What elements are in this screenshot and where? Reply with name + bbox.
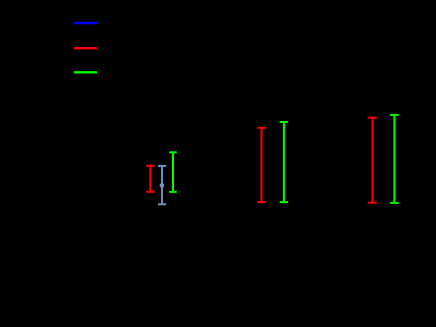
errorbar lightblue group1 with marker <box>158 166 166 204</box>
legend line red <box>74 47 97 49</box>
errorbar red group3 <box>368 118 377 203</box>
legend line green <box>74 71 97 73</box>
errorbar green group1 <box>169 152 177 192</box>
errorbar red group2 <box>257 128 266 202</box>
legend line blue <box>74 22 97 24</box>
errorbar red group1 <box>146 166 154 192</box>
marker dot group1 <box>160 183 165 188</box>
errorbar green group3 <box>390 115 398 203</box>
errorbar green group2 <box>280 122 288 202</box>
